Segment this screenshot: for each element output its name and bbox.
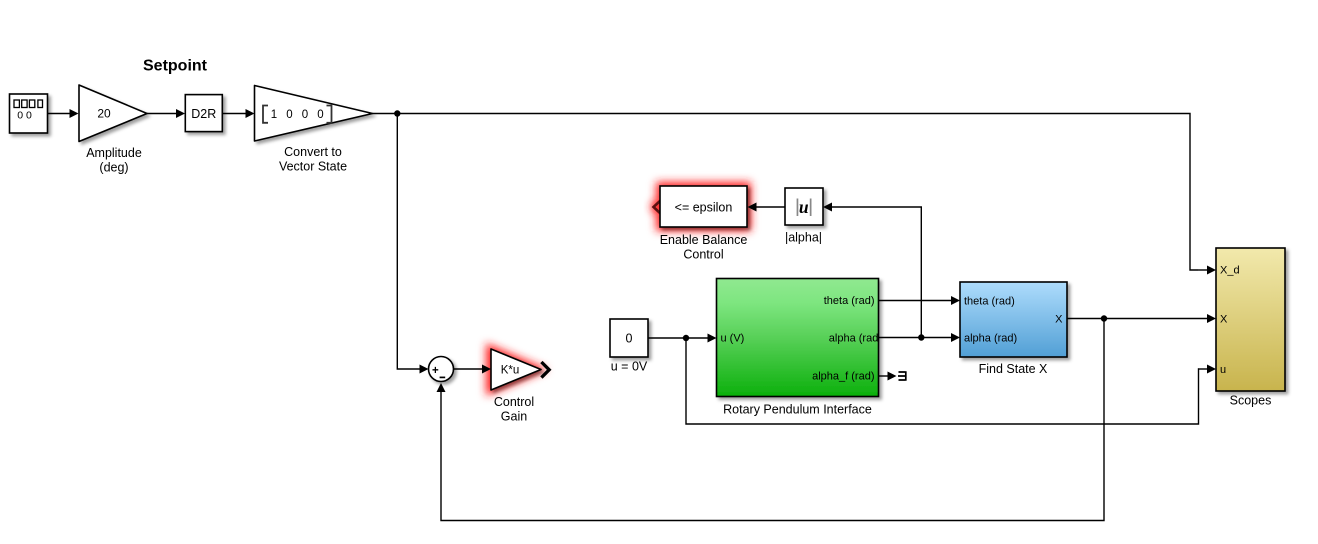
wire: Convert output across the top to Scopes X_d — [373, 114, 1217, 275]
unconnected output chevron of Control Gain — [541, 362, 549, 378]
label Amplitude (deg) — [86, 146, 142, 175]
svg-text:0: 0 — [317, 109, 323, 121]
svg-text:0: 0 — [302, 109, 308, 121]
wire: constant to Rotary Pendulum Interface u (V) — [648, 334, 717, 343]
gain Amplitude (deg) value 20 — [79, 85, 147, 142]
gain Convert to Vector State [1 0 0 0] — [255, 86, 373, 142]
wire: signal source to Amplitude gain — [48, 109, 79, 118]
svg-text:Gain: Gain — [501, 410, 527, 424]
junction node on X wire — [1101, 315, 1107, 321]
label |alpha| — [785, 231, 822, 245]
signal source block (setpoint signal) — [10, 94, 48, 133]
svg-text:alpha (rad): alpha (rad) — [829, 333, 882, 345]
title Setpoint — [143, 58, 208, 75]
svg-text:Amplitude: Amplitude — [86, 146, 142, 160]
svg-text:0: 0 — [286, 109, 292, 121]
wire: D2R to Convert to Vector State — [222, 109, 254, 118]
svg-text:theta (rad): theta (rad) — [964, 296, 1015, 308]
wire: alpha junction up and left into |u| (leftward) — [823, 203, 921, 338]
svg-text:u: u — [1220, 364, 1226, 376]
terminator mark at alpha_f — [898, 371, 906, 380]
svg-text:u: u — [799, 197, 809, 217]
wire: theta to Find State X — [879, 296, 961, 305]
wire: junction down to sum — [397, 114, 428, 374]
svg-text:0 0: 0 0 — [17, 110, 32, 122]
svg-text:Enable Balance: Enable Balance — [660, 233, 748, 247]
svg-text:Control: Control — [683, 248, 723, 262]
svg-text:u (V): u (V) — [721, 333, 745, 345]
constant block u = 0V — [610, 319, 648, 357]
red glow of Enable Balance Control — [656, 182, 751, 231]
svg-text:20: 20 — [97, 107, 111, 121]
svg-text:u = 0V: u = 0V — [611, 360, 648, 374]
label u = 0V — [611, 360, 648, 374]
label Scopes — [1230, 394, 1272, 408]
svg-text:Rotary Pendulum Interface: Rotary Pendulum Interface — [723, 403, 872, 417]
wire: alpha to Find State X — [879, 333, 961, 342]
svg-text:0: 0 — [626, 332, 633, 346]
red glow of Control Gain — [486, 343, 548, 396]
junction node on alpha wire — [918, 334, 924, 340]
block Enable Balance Control (<= epsilon) — [660, 186, 747, 227]
svg-text:X: X — [1220, 314, 1228, 326]
svg-text:Vector State: Vector State — [279, 160, 347, 174]
wire: sum to Control Gain — [454, 365, 492, 374]
svg-text:X_d: X_d — [1220, 265, 1240, 277]
svg-text:<= epsilon: <= epsilon — [675, 201, 733, 215]
svg-text:theta (rad): theta (rad) — [824, 295, 875, 307]
svg-text:Convert to: Convert to — [284, 145, 342, 159]
wire: |u| to Enable Balance Control (leftward) — [748, 203, 786, 212]
svg-text:Setpoint: Setpoint — [143, 58, 208, 75]
wire: alpha_f to terminator mark — [879, 372, 897, 381]
svg-text:Control: Control — [494, 395, 534, 409]
svg-text:K*u: K*u — [501, 365, 520, 377]
sum block — [429, 357, 454, 382]
wire: X junction down, left and up into sum (feedback) — [437, 319, 1105, 521]
wire: u junction down and right to Scopes u input — [686, 338, 1216, 424]
svg-text:1: 1 — [271, 109, 277, 121]
svg-text:+: + — [432, 365, 439, 377]
block |alpha| (abs) — [785, 188, 823, 225]
label Enable Balance Control — [660, 233, 748, 262]
gain Control Gain K*u — [491, 349, 541, 390]
wire: Find State X output to Scopes X — [1067, 314, 1216, 323]
red unconnected output chevron (left of Enable Balance Control) — [651, 201, 663, 214]
junction node on setpoint line — [394, 110, 400, 116]
svg-text:alpha (rad): alpha (rad) — [964, 333, 1017, 345]
label Convert to Vector State — [279, 145, 347, 174]
label Find State X — [979, 362, 1048, 376]
subsystem Find State X — [960, 282, 1067, 357]
svg-text:X: X — [1055, 314, 1063, 326]
wire: Amplitude gain to D2R — [147, 109, 185, 118]
junction node on u wire — [683, 335, 689, 341]
scope block Scopes — [1216, 248, 1285, 391]
svg-text:|alpha|: |alpha| — [785, 231, 822, 245]
svg-text:alpha_f (rad): alpha_f (rad) — [812, 371, 874, 383]
svg-text:Scopes: Scopes — [1230, 394, 1272, 408]
label Control Gain — [494, 395, 534, 424]
block D2R (degrees to radians) — [185, 95, 222, 132]
svg-text:Find State X: Find State X — [979, 362, 1048, 376]
subsystem Rotary Pendulum Interface — [717, 279, 879, 397]
svg-text:D2R: D2R — [191, 107, 216, 121]
label Rotary Pendulum Interface — [723, 403, 872, 417]
svg-text:(deg): (deg) — [99, 161, 128, 175]
